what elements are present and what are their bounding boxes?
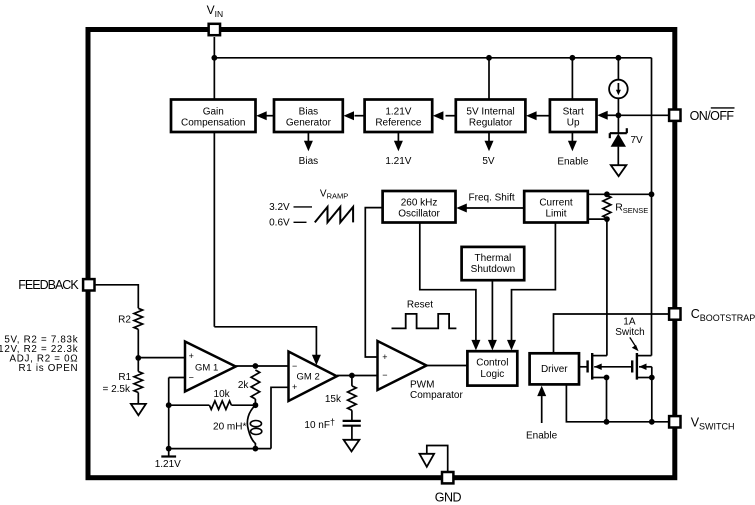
svg-text:Gain: Gain [203,106,224,117]
wire: node A to R1 [137,358,139,372]
svg-text:5V: 5V [482,156,495,167]
wire: GND pin to ground arrow [427,446,448,472]
svg-text:Up: Up [567,118,580,129]
resistor R2 [134,308,143,329]
svg-text:Start: Start [563,106,584,117]
wire: 15k to capacitor [351,410,353,421]
node: RSENSE bottom [604,216,610,222]
wire: rail up to GM2 + input [271,387,289,448]
wire: zener top lead [617,115,619,133]
block: Gain Compensation U-GC [171,100,256,133]
wire: 1.21V bottom rail [169,448,271,450]
op-amp GM2 triangle [289,352,337,402]
node: 5V regulator feed [486,55,492,61]
waveform: oscillator ramp sawtooth [315,207,353,223]
wire: GM2 output to PWM comparator [337,375,378,377]
svg-text:7V: 7V [631,135,644,146]
svg-text:Driver: Driver [541,364,568,375]
wire: GM1 - input stub [169,377,185,379]
svg-text:10k: 10k [214,389,231,400]
svg-text:Logic: Logic [480,369,504,380]
block: 1.21V Reference [365,100,433,133]
wire: RSENSE bottom stub [588,218,607,220]
zener diode D1 cathode bar [610,132,627,134]
wire: RSENSE bottom down to switch drain [606,219,608,356]
svg-text:R2: R2 [118,314,131,325]
pin VSWITCH square [669,416,680,427]
arrow: Enable output of Start Up [571,132,573,144]
svg-text:Control: Control [476,358,508,369]
current source I1 arrow [617,83,619,92]
wire: Bias Generator to Gain Compensation [264,115,274,117]
node: 2k / 10k / inductor node [253,402,259,408]
svg-text:1.21V: 1.21V [385,156,411,167]
wire: gain compensation jog to GM2 [214,327,316,358]
arrow: Bias output [307,132,309,144]
node: ON/OFF to zener junction [616,112,622,118]
wire: 1.21V Reference to Bias Generator [355,115,365,117]
svg-text:15k: 15k [325,394,342,405]
capacitor 10nF plates [343,420,361,422]
resistor 15k [348,386,357,410]
mosfet Q2 source stub [637,377,652,379]
node: start-up feed [570,55,576,61]
wire: PWM output to control logic [427,365,468,367]
wire: current source top lead [617,58,619,80]
svg-text:+: + [292,382,297,392]
mosfet Q1 body arrow to Q2 gate [594,366,632,368]
mosfet Q2 (1A switch) gate bar [631,360,633,372]
wire: node A to GM1 + input [138,357,185,359]
svg-text:−: − [382,370,387,380]
svg-text:Thermal: Thermal [475,253,512,264]
node: GM1 output / 2k top [253,363,259,369]
svg-text:1.21V: 1.21V [385,106,411,117]
zener diode D1 anode triangle [611,134,626,147]
wire: GM1 output to GM2 [236,365,289,367]
node: VIN rail junction at gain-comp feed [211,55,217,61]
block: Control Logic [467,351,517,385]
arrow: 1.21V output [397,132,399,144]
wire: current source bottom lead [617,98,619,115]
svg-text:−: − [292,361,297,371]
svg-text:+: + [382,352,387,362]
svg-text:Enable: Enable [526,430,558,441]
op-amp GM1 triangle [185,342,236,392]
svg-text:1A: 1A [623,317,636,328]
node: Q2 source on VSWITCH rail [649,419,655,425]
wire: zener to ground arrow [617,147,619,166]
wire: RSENSE top stub [588,193,607,195]
wire: ON/OFF line to Start Up [618,114,668,116]
wire: 5V Regulator to 1.21V Reference [446,115,456,117]
node: 1.21V rail left [166,446,172,452]
mosfet Q1 gate bar [586,360,588,372]
svg-text:Freq. Shift: Freq. Shift [469,192,515,203]
waveform: reset pulses [392,314,457,329]
mosfet Q1 source stub [592,377,606,379]
pin VIN square [209,24,220,35]
node: right vertical at RSENSE line [649,191,655,197]
block: Current Limit [524,191,588,223]
wire: 1.21V supply stub [168,449,170,457]
block: Driver [530,353,579,384]
arrow: pointer to 1A switch [630,337,636,346]
svg-text:Reference: Reference [375,118,422,129]
pin ON/OFF square [669,110,680,121]
svg-text:Reset: Reset [407,299,433,310]
ground arrow below R1 [131,404,146,415]
wire: oscillator output to control logic [420,223,476,345]
svg-text:3.2V: 3.2V [269,202,290,213]
node A: feedback divider [135,355,141,361]
inductor 20mH coil [247,405,255,448]
wire: driver gate output [579,366,587,368]
block: 5V Internal Regulator [456,100,526,133]
wire: right vertical from top rail down to RSENSE node [651,58,653,195]
wire: GM2 output node down to 15k [351,376,353,386]
node: Q1 source on VSWITCH rail [604,419,610,425]
block: Start Up [550,100,597,133]
node: 10k left [166,402,172,408]
tick: 0.6V level line [294,221,307,223]
svg-text:GM 2: GM 2 [297,371,320,382]
svg-text:2k: 2k [238,380,250,391]
IC outer boundary box [88,30,675,478]
pin GND square [442,472,453,483]
comparator PWM triangle [378,341,427,390]
svg-text:260 kHz: 260 kHz [401,197,438,208]
svg-text:0.6V: 0.6V [269,218,290,229]
wire: R1 to ground arrow [137,393,139,404]
wire: RSENSE node to right vertical [607,193,652,195]
1.21V supply bar [161,455,176,457]
svg-text:FEEDBACK: FEEDBACK [18,278,79,292]
wire: current limit to control logic [512,223,556,345]
svg-text:Shutdown: Shutdown [471,264,515,275]
wire: top rail into Start Up [571,58,573,100]
resistor 10k [209,401,231,410]
wire: oscillator ramp to PWM + input [365,208,382,357]
node: RSENSE top [604,191,610,197]
ground arrow below capacitor [344,440,360,452]
wire: CBOOTSTRAP to driver top [554,314,669,353]
node: Q2 source [649,375,655,381]
pin CBOOTSTRAP square [669,308,680,319]
wire: gain compensation output down [213,132,215,327]
pin FEEDBACK square [83,279,94,290]
ground arrow below zener [611,165,627,176]
node: current source feed [616,55,622,61]
wire: Current Limit to Oscillator (freq shift) [466,207,524,209]
mosfet Q2 body arrow [639,366,652,368]
svg-text:ON/OFF: ON/OFF [690,109,735,123]
resistor RSENSE [603,195,611,218]
arrow: Enable into driver [541,392,543,423]
wire: 2k bottom to node [254,399,256,405]
svg-text:Bias: Bias [299,106,318,117]
svg-text:Enable: Enable [557,157,589,168]
wire: 10k node to resistor [169,404,210,406]
svg-text:PWM: PWM [410,379,434,390]
ground arrow near GND pin [420,454,435,467]
node: inductor bottom on rail [253,446,259,452]
block: 260 kHz Oscillator [383,191,456,223]
wire: R2 to node A [137,329,139,358]
current source I1 circle [609,80,628,99]
node: Q1 source [604,375,610,381]
svg-text:−: − [189,373,194,383]
svg-text:Limit: Limit [545,208,566,219]
svg-text:R1 is OPEN: R1 is OPEN [18,363,78,374]
svg-text:1.21V: 1.21V [155,459,181,470]
svg-text:Switch: Switch [615,327,644,338]
svg-text:+: + [189,351,194,361]
wire: GM1 - input down to 10k node [168,378,170,406]
wire: feedback pin to R2 [96,285,139,309]
wire: 10k right to 2k node [231,404,255,406]
svg-text:Oscillator: Oscillator [398,208,440,219]
wire: top rail into 5V Internal Regulator [488,58,490,100]
wire: 10k node down to 1.21V rail [168,405,170,448]
wire: thermal shutdown to control logic [491,280,493,344]
wire: right vertical RSENSE node down to 1A switch drain [651,194,653,355]
svg-text:= 2.5k: = 2.5k [102,384,131,395]
wire: Q1 source down to VSWITCH rail [606,378,608,422]
svg-text:GND: GND [435,491,462,505]
tick: 3.2V level line [294,206,313,208]
svg-text:R1: R1 [118,372,131,383]
svg-text:GM 1: GM 1 [195,362,218,373]
svg-text:Compensation: Compensation [181,118,245,129]
mosfet Q2 channel bar [636,353,638,380]
resistor R1 [134,372,143,393]
mosfet Q2 drain stub [637,355,652,357]
svg-text:Current: Current [539,197,573,208]
block: Bias Generator [274,100,343,133]
wire: capacitor to ground arrow [351,426,353,440]
wire: Start Up to 5V Regulator [537,115,550,117]
node: GM2 output / 15k top [349,373,355,379]
wire: Q2 source down to VSWITCH rail [651,378,653,422]
mosfet Q1 drain stub [592,355,607,357]
svg-text:Regulator: Regulator [469,118,513,129]
svg-text:Generator: Generator [286,118,332,129]
svg-text:20 mH*: 20 mH* [213,422,246,433]
resistor 2k [251,370,260,399]
arrow: 5V output [488,132,490,144]
wire: VSWITCH rail [566,384,668,421]
svg-text:Comparator: Comparator [410,390,463,401]
mosfet Q1 channel bar [591,353,593,380]
block: Thermal Shutdown [462,247,525,280]
svg-text:Bias: Bias [299,156,318,167]
wire: top VIN rail horizontal [214,57,651,59]
svg-text:5V Internal: 5V Internal [466,106,514,117]
wire: VIN pin down to top rail junction [213,37,215,100]
